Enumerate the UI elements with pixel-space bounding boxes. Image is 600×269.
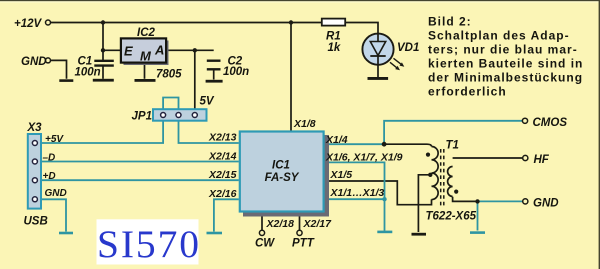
IC1 shadow bbox=[243, 135, 329, 217]
svg-text:ters; nur die blau mar-: ters; nur die blau mar- bbox=[428, 43, 578, 57]
svg-text:+12V: +12V bbox=[14, 18, 43, 30]
junction A/5V bbox=[193, 48, 197, 52]
svg-text:FA-SY: FA-SY bbox=[265, 172, 300, 184]
wire IC2 A output to C2 bbox=[166, 49, 214, 51]
IC2 shadow bbox=[124, 41, 169, 66]
T1 center tap junction bbox=[428, 173, 432, 177]
wire CW pin bbox=[261, 214, 263, 230]
svg-text:IC2: IC2 bbox=[137, 27, 156, 39]
wire X1/4 output bbox=[325, 143, 385, 145]
svg-text:X2/16: X2/16 bbox=[208, 188, 237, 200]
wire -D to X2/14 bbox=[40, 161, 239, 163]
wire T1 secondary top to HF bbox=[453, 157, 523, 159]
svg-text:Bild 2:: Bild 2: bbox=[428, 15, 472, 29]
ground (USB GND, cyan) bbox=[59, 232, 73, 235]
ground (IC2 M) bbox=[135, 79, 156, 82]
T1 primary polarity dot bbox=[426, 153, 430, 157]
svg-text:SI570: SI570 bbox=[97, 222, 201, 266]
wire +12V rail bbox=[51, 23, 379, 35]
junction X1/1..3 rail (cyan) bbox=[382, 197, 386, 201]
svg-text:kierten Bauteile sind in: kierten Bauteile sind in bbox=[428, 57, 583, 71]
svg-text:USB: USB bbox=[24, 216, 48, 228]
JP1 pin 1 bbox=[161, 113, 166, 118]
svg-text:100n: 100n bbox=[223, 66, 249, 78]
ground (C2) bbox=[206, 80, 223, 83]
LED VD1 bbox=[362, 34, 404, 71]
svg-text:GND: GND bbox=[533, 198, 559, 210]
right border bbox=[599, 0, 600, 269]
transformer core bbox=[441, 149, 444, 206]
wire X1/6 X1/7 X1/9 to ground bbox=[325, 162, 385, 230]
svg-text:100n: 100n bbox=[75, 67, 101, 79]
svg-text:M: M bbox=[140, 49, 152, 64]
svg-text:+D: +D bbox=[43, 171, 56, 182]
JP1 pin 3 bbox=[192, 113, 197, 118]
terminal GND (top) bbox=[46, 58, 51, 63]
svg-text:Schaltplan des Adap-: Schaltplan des Adap- bbox=[428, 29, 570, 43]
capacitor C2 bbox=[207, 61, 221, 70]
svg-text:X1/6, X1/7, X1/9: X1/6, X1/7, X1/9 bbox=[325, 152, 403, 164]
junction T1 secondary/GND bbox=[475, 199, 479, 203]
wire T1 center tap to ground bbox=[418, 175, 431, 232]
ground (GND output, cyan) bbox=[470, 231, 485, 234]
svg-text:X1/4: X1/4 bbox=[325, 134, 348, 146]
T1 secondary polarity dot bbox=[454, 190, 458, 194]
JP1 pin 2 bbox=[176, 113, 181, 118]
svg-text:VD1: VD1 bbox=[397, 42, 419, 54]
svg-text:X2/15: X2/15 bbox=[208, 169, 237, 181]
wire X1/5 to T1 primary bottom bbox=[325, 181, 432, 205]
ground (C1) bbox=[93, 79, 114, 82]
terminal GND (output) bbox=[523, 199, 528, 204]
svg-text:X2/18: X2/18 bbox=[266, 218, 295, 230]
junction IC2-E/C1 bbox=[101, 48, 105, 52]
svg-text:der Minimalbestückung: der Minimalbestückung bbox=[428, 71, 583, 85]
top border bbox=[0, 0, 600, 1]
svg-text:1k: 1k bbox=[328, 42, 341, 54]
svg-text:T1: T1 bbox=[446, 140, 459, 152]
wire CMOS line bbox=[384, 121, 523, 144]
X3 pin 3 bbox=[32, 178, 37, 183]
svg-text:A: A bbox=[154, 43, 164, 58]
wire +D to X2/15 bbox=[40, 179, 239, 181]
resistor R1 bbox=[322, 19, 345, 26]
wire C1/IC2-E vertical drop bbox=[102, 23, 104, 61]
wire C1 bottom bbox=[102, 66, 104, 79]
wire GND output to ground bbox=[477, 201, 479, 230]
wire 5V drop to JP1 pin3 bbox=[194, 50, 196, 113]
svg-text:5V: 5V bbox=[200, 96, 215, 108]
svg-text:JP1: JP1 bbox=[132, 111, 152, 123]
wire X3 GND pin to ground bbox=[37, 199, 66, 231]
ground (X1/6,7,9, cyan) bbox=[377, 231, 392, 234]
X3 pin 4 bbox=[32, 197, 37, 202]
terminal PTT bbox=[297, 230, 302, 235]
wire T1 secondary bottom bbox=[453, 197, 478, 202]
jumper JP1 bbox=[153, 109, 207, 121]
wire JP1 pin2 to X2/13 bbox=[179, 121, 239, 143]
junction +12V/X1-8 bbox=[289, 20, 293, 24]
terminal CW bbox=[259, 230, 264, 235]
wire GND terminal to ground bbox=[51, 60, 67, 78]
SI570 overlay box bbox=[97, 219, 199, 264]
svg-text:R1: R1 bbox=[326, 31, 341, 43]
wire JP1 jumper loop pins 1-2 bbox=[163, 98, 178, 113]
ground (VD1) bbox=[368, 77, 389, 80]
transformer T1 secondary winding bbox=[448, 167, 453, 197]
svg-text:X3: X3 bbox=[27, 122, 43, 134]
IC1 FA-SY bbox=[240, 132, 324, 212]
wire PTT pin bbox=[299, 214, 301, 230]
svg-text:+5V: +5V bbox=[45, 134, 64, 145]
wire IC2 M to ground bbox=[144, 63, 146, 79]
X3 pin 1 bbox=[32, 141, 37, 146]
wire X1/1..X1/3 row bbox=[325, 198, 385, 200]
svg-text:X1/1…X1/3: X1/1…X1/3 bbox=[330, 187, 385, 199]
svg-text:E: E bbox=[124, 44, 133, 59]
connector X3 bbox=[28, 134, 41, 209]
svg-text:X1/8: X1/8 bbox=[293, 118, 316, 130]
ground (T1 center tap) bbox=[412, 233, 427, 236]
svg-text:IC1: IC1 bbox=[272, 160, 290, 172]
wire IC2 E input bbox=[103, 49, 122, 51]
svg-text:GND: GND bbox=[21, 56, 47, 68]
terminal +12V bbox=[46, 20, 51, 25]
svg-text:X2/17: X2/17 bbox=[303, 218, 333, 230]
junction X1/4-CMOS-T1 bbox=[382, 142, 387, 147]
wire GND output line bbox=[478, 200, 524, 202]
svg-text:T622-X65: T622-X65 bbox=[426, 211, 477, 223]
ground (GND terminal) bbox=[59, 79, 73, 82]
wire X2/16 to ground bbox=[214, 199, 239, 231]
X3 pin 2 bbox=[32, 159, 37, 164]
svg-text:GND: GND bbox=[45, 188, 67, 199]
svg-text:X2/14: X2/14 bbox=[208, 150, 237, 162]
wire X1/8 bbox=[290, 23, 292, 131]
svg-text:CMOS: CMOS bbox=[533, 117, 568, 129]
terminal CMOS bbox=[522, 118, 527, 123]
voltage regulator IC2 bbox=[121, 38, 166, 62]
svg-text:CW: CW bbox=[255, 238, 275, 250]
svg-text:PTT: PTT bbox=[292, 238, 315, 250]
ground (X2/16, cyan) bbox=[207, 232, 223, 235]
wire +5V from X3 to JP1 pin1 bbox=[40, 121, 163, 143]
transformer T1 primary winding bbox=[432, 147, 439, 200]
svg-text:7805: 7805 bbox=[156, 69, 182, 81]
terminal HF bbox=[523, 155, 528, 160]
capacitor C1 bbox=[94, 61, 114, 66]
svg-text:HF: HF bbox=[534, 154, 550, 166]
svg-text:X2/13: X2/13 bbox=[208, 131, 237, 143]
wire X1/4 junction to T1 primary top bbox=[384, 144, 431, 146]
svg-text:X1/5: X1/5 bbox=[330, 169, 353, 181]
wire LED cathode to ground bbox=[377, 65, 379, 77]
wire C2 bottom bbox=[213, 71, 215, 80]
caption Bild 2 bbox=[428, 15, 583, 99]
svg-text:erforderlich: erforderlich bbox=[428, 85, 507, 99]
junction +12V/C1 bbox=[101, 20, 105, 24]
svg-text:–D: –D bbox=[43, 153, 56, 164]
